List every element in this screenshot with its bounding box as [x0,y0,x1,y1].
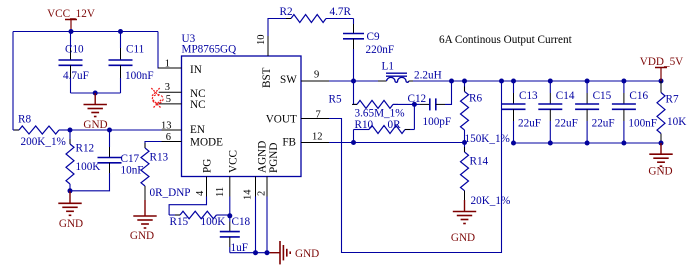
label GND (IC rail) [295,248,319,260]
pin 14 AGND [243,141,269,200]
capacitor C14 [538,81,562,143]
svg-text:4.7R: 4.7R [330,6,352,18]
power symbol VDD_5V bar [655,68,667,82]
capacitor C18 [220,222,240,253]
label C16 [629,90,648,102]
value 0R [388,119,402,131]
wire L1 to VDD rail [413,80,661,82]
junction R8-R12 [68,128,73,133]
value 22uF (C15) [592,118,615,130]
svg-text:7: 7 [316,109,321,120]
value 200K_1% [21,136,66,148]
svg-text:R5: R5 [329,93,342,105]
pin 4 PG [195,159,213,197]
value 22uF (C14) [555,118,578,130]
value 2.2uH [414,69,442,81]
wire PGND down [266,197,268,253]
value 22uF (C13) [518,118,541,130]
label C12 [408,93,427,105]
label U3 [182,33,196,45]
value 100K (R15) [201,216,226,228]
label GND (R7) [648,166,672,178]
wire C10-C11 bottom join [71,92,121,94]
value 1uF [231,242,248,254]
svg-text:IN: IN [190,64,202,76]
svg-text:10nF: 10nF [121,165,144,177]
svg-text:GND: GND [130,230,154,242]
resistor R14 [461,143,469,201]
svg-text:GND: GND [59,218,83,230]
svg-text:SW: SW [280,74,297,86]
svg-text:C15: C15 [593,90,612,102]
ground under C10 C11 [84,93,107,117]
value 100pF [423,116,452,128]
wire SW down to R5 [354,81,358,104]
ground under R12 [58,191,81,216]
junction at C11 top [118,29,123,34]
pin 7 VOUT [266,109,329,125]
no-ERC dashed circle [152,95,163,104]
junction R15-VCC [227,213,232,218]
power net label VDD_5V [640,56,684,68]
junction FB-R6-R14 [462,140,467,145]
value 0R_DNP [150,187,191,199]
wire junction down to R10 [413,104,415,129]
capacitor C17 [70,130,122,191]
ground sideways (IC rail) [270,241,290,264]
pin 3 NC [159,82,206,100]
svg-text:12: 12 [312,132,323,143]
svg-text:22uF: 22uF [555,118,578,130]
svg-text:GND: GND [83,119,107,131]
label R13 [150,152,169,164]
svg-text:GND: GND [451,232,475,244]
svg-text:100nF: 100nF [125,70,154,82]
junction at GND stem [93,91,98,96]
svg-text:2.2uH: 2.2uH [414,69,442,81]
label C17 [121,153,140,165]
value 100nF [125,70,154,82]
svg-text:100nF: 100nF [628,118,657,130]
svg-text:R15: R15 [170,216,189,228]
junction R6 top [462,79,467,84]
svg-text:C10: C10 [65,44,84,56]
resistor R12 [66,130,74,191]
svg-text:6: 6 [166,132,171,143]
label C10 [65,44,84,56]
resistor R8 [13,126,70,134]
pin 1 IN [158,59,202,76]
svg-text:PG: PG [201,159,213,173]
svg-text:R6: R6 [469,93,482,105]
svg-text:R13: R13 [150,152,169,164]
junction SW-C9-R5 [351,79,356,84]
svg-text:MP8765GQ: MP8765GQ [182,44,237,56]
capacitor C12 [414,81,451,110]
svg-text:0R: 0R [388,119,402,131]
svg-text:10: 10 [256,35,267,46]
wire R10 to FB [353,130,355,143]
svg-text:VCC_12V: VCC_12V [47,8,95,20]
junction VDD stem [659,79,664,84]
junction R7 bottom [659,141,664,146]
svg-text:20K_1%: 20K_1% [471,195,511,207]
junction C13 top [511,79,516,84]
no-ERC cross pin 3 [151,88,159,96]
svg-text:GND: GND [295,248,319,260]
svg-text:BST: BST [261,67,273,88]
svg-text:R2: R2 [280,6,293,18]
capacitor C10 [59,32,83,94]
wire BST to R2 [268,19,291,37]
junction C16 bottom [621,141,626,146]
label R12 [76,143,95,155]
junction at VCC stem [69,29,74,34]
label C15 [593,90,612,102]
svg-text:9: 9 [314,69,319,80]
wire VCC pin down [229,197,231,222]
svg-text:VOUT: VOUT [266,114,297,126]
junction PGND rail [265,250,270,255]
svg-text:0R_DNP: 0R_DNP [150,187,191,199]
capacitor C13 [502,81,526,143]
svg-text:100K: 100K [201,216,226,228]
svg-text:11: 11 [215,187,226,197]
svg-text:1: 1 [165,59,170,70]
svg-text:R8: R8 [18,114,31,126]
wire left drop to R8 [12,32,14,131]
label C13 [519,90,538,102]
value 150K_1% [465,133,510,145]
label C9 [367,31,380,43]
svg-text:C18: C18 [232,216,251,228]
junction C17 top [107,128,112,133]
pin 9 SW [280,69,329,86]
ground under R13 [133,200,156,228]
op-amp U3 MP8765GQ body [182,56,302,177]
pin 11 VCC [215,150,240,197]
svg-text:100pF: 100pF [423,116,452,128]
junction C14 top [548,79,553,84]
svg-text:2: 2 [257,191,268,196]
svg-text:PGND: PGND [268,143,280,173]
svg-text:C16: C16 [629,90,648,102]
power symbol VCC_12V bar [65,20,77,32]
value 10K [667,116,686,128]
svg-text:C11: C11 [126,44,144,56]
junction C15 bottom [585,141,590,146]
svg-text:3: 3 [165,82,170,93]
value 10nF [121,165,144,177]
label GND (R14) [451,232,475,244]
resistor R2 [286,15,354,23]
capacitor C15 [575,81,599,143]
note 6A Continous Output Current [439,34,573,46]
resistor R10 [354,126,415,134]
ground under R7 [649,143,672,166]
label GND (R13) [130,230,154,242]
inductor L1 [378,73,415,82]
junction C14 bottom [548,141,553,146]
label R6 [469,93,482,105]
label R2 [280,6,293,18]
resistor R15 [169,211,230,219]
value 100nF (C16) [628,118,657,130]
wire EN line [70,129,162,131]
junction R5-C12-R10 [412,102,417,107]
svg-text:13: 13 [161,120,172,131]
power net label VCC_12V [47,8,95,20]
wire top rail VCC_12V [13,31,158,33]
pin 10 BST [256,35,273,89]
label L1 [382,61,394,73]
svg-text:5: 5 [166,94,171,105]
resistor R7 [657,81,665,143]
svg-text:6A Continous Output Current: 6A Continous Output Current [439,34,573,46]
svg-text:FB: FB [282,136,296,148]
svg-text:4.7uF: 4.7uF [63,70,89,82]
svg-text:C17: C17 [121,153,140,165]
label GND (R12) [59,218,83,230]
value 4.7uF [63,70,89,82]
svg-text:22uF: 22uF [518,118,541,130]
label R7 [666,94,679,106]
svg-text:C12: C12 [408,93,427,105]
svg-text:C14: C14 [556,90,575,102]
wire MODE to R13 [145,142,162,149]
svg-text:R12: R12 [76,143,95,155]
svg-text:GND: GND [648,166,672,178]
resistor R6 [461,81,469,143]
junction C15 top [585,79,590,84]
label R15 [170,216,189,228]
label R8 [18,114,31,126]
pin 6 MODE [162,132,224,149]
svg-text:R10: R10 [355,119,374,131]
svg-text:AGND: AGND [256,141,268,173]
svg-text:L1: L1 [382,61,394,73]
svg-text:220nF: 220nF [366,44,395,56]
junction C13 bottom [511,141,516,146]
pin 12 FB [282,132,329,149]
svg-text:C13: C13 [519,90,538,102]
wire PG to R15 [169,197,206,216]
pin 13 EN [161,120,205,136]
value 4.7R [330,6,352,18]
junction FB-R10 [351,140,356,145]
value 100K [76,161,101,173]
label C11 [126,44,144,56]
svg-text:10K: 10K [667,116,686,128]
svg-text:VCC: VCC [228,150,240,173]
wire AGND down [255,197,257,253]
wire FB line [329,142,465,144]
wire IC ground rail [230,252,270,254]
junction R12 bottom [68,188,73,193]
svg-text:R14: R14 [470,156,489,168]
resistor R5 [352,100,414,108]
label GND (input caps) [83,119,107,131]
wire output gnd rail [514,142,662,144]
capacitor C9 [343,19,364,82]
svg-text:22uF: 22uF [592,118,615,130]
junction VOUT riser [499,79,504,84]
svg-text:14: 14 [243,189,254,200]
label C14 [556,90,575,102]
label C18 [232,216,251,228]
label R14 [470,156,489,168]
svg-text:C9: C9 [367,31,380,43]
value 3.65M_1% [355,107,405,119]
ground under R14 [453,200,476,224]
svg-text:3.65M_1%: 3.65M_1% [355,107,405,119]
svg-text:NC: NC [190,99,206,111]
junction C16 top [621,79,626,84]
svg-text:VDD_5V: VDD_5V [640,56,684,68]
value 20K_1% [471,195,511,207]
junction AGND rail [253,250,258,255]
svg-text:100K: 100K [76,161,101,173]
pin 5 NC [159,94,206,111]
capacitor C16 [612,81,636,143]
svg-text:EN: EN [190,124,205,136]
wire SW to L1 [329,80,380,82]
junction C12 riser [449,79,454,84]
capacitor C11 [109,32,133,94]
value 220nF [366,44,395,56]
svg-text:R7: R7 [666,94,679,106]
label MP8765GQ [182,44,237,56]
svg-text:4: 4 [195,190,206,196]
wire VOUT route [329,81,502,253]
svg-text:MODE: MODE [190,137,223,149]
svg-text:150K_1%: 150K_1% [465,133,510,145]
svg-text:200K_1%: 200K_1% [21,136,66,148]
pin 2 PGND [257,143,281,197]
resistor R13 [141,143,149,200]
wire rail to IN pin [158,32,163,69]
label R10 [355,119,374,131]
label R5 [329,93,342,105]
no-ERC cross pin 5 [153,100,161,108]
